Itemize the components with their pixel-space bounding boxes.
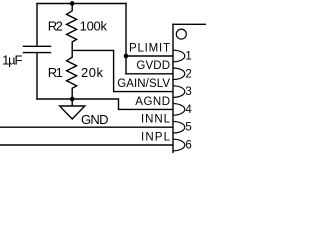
svg-text:GND: GND [81,112,109,127]
IC U1 box top edge [173,23,206,25]
svg-text:PLIMIT: PLIMIT [129,42,170,54]
IC U1 box left edge segments [172,24,174,153]
resistor R1 [67,50,77,99]
ground symbol [60,99,85,119]
svg-text:AGND: AGND [135,96,170,108]
node junction R1 bottom on ground wire [70,97,75,102]
wire top net GVDD horizontal [37,3,126,5]
capacitor C1 1uF top lead [36,4,38,47]
node junction R2 top on top wire [70,1,75,6]
pin 5 socket arc [173,121,185,133]
IC U1 pin-1 indicator circle [176,29,186,39]
wire GVDD to pin 2 [126,73,172,75]
capacitor C1 1uF bottom lead [36,53,38,99]
wire ground net to AGND pin 4 [37,99,172,109]
svg-text:2: 2 [185,68,191,80]
svg-text:GAIN/SLV: GAIN/SLV [117,78,170,90]
svg-text:6: 6 [185,140,191,152]
pin 1 socket arc [173,50,185,62]
svg-text:20k: 20k [81,65,104,80]
pin 6 socket arc [173,139,185,151]
wire PLIMIT to pin 1 [126,55,172,57]
node junction PLIMIT tap on GVDD drop [124,54,129,59]
wire INNL to pin 5 [0,126,172,128]
wire R2/R1 midpoint to GAIN/SLV pin 3 [72,50,172,91]
svg-text:GVDD: GVDD [136,60,170,72]
svg-text:4: 4 [185,104,192,116]
pin 3 socket arc [173,86,185,98]
svg-text:INNL: INNL [141,114,171,126]
pin 4 socket arc [173,104,185,116]
capacitor C1 1uF plates [24,46,51,52]
wire GVDD vertical drop [125,4,127,74]
svg-text:3: 3 [185,86,191,98]
svg-text:100k: 100k [80,18,108,33]
svg-text:R1: R1 [48,65,63,80]
svg-text:1: 1 [185,51,191,63]
svg-text:INPL: INPL [141,131,171,143]
svg-text:5: 5 [185,122,191,134]
pin 2 socket arc [173,68,185,80]
svg-text:R2: R2 [48,18,63,33]
resistor R2 [67,4,77,51]
svg-text:1µF: 1µF [2,53,22,68]
wire INPL to pin 6 [0,144,172,146]
